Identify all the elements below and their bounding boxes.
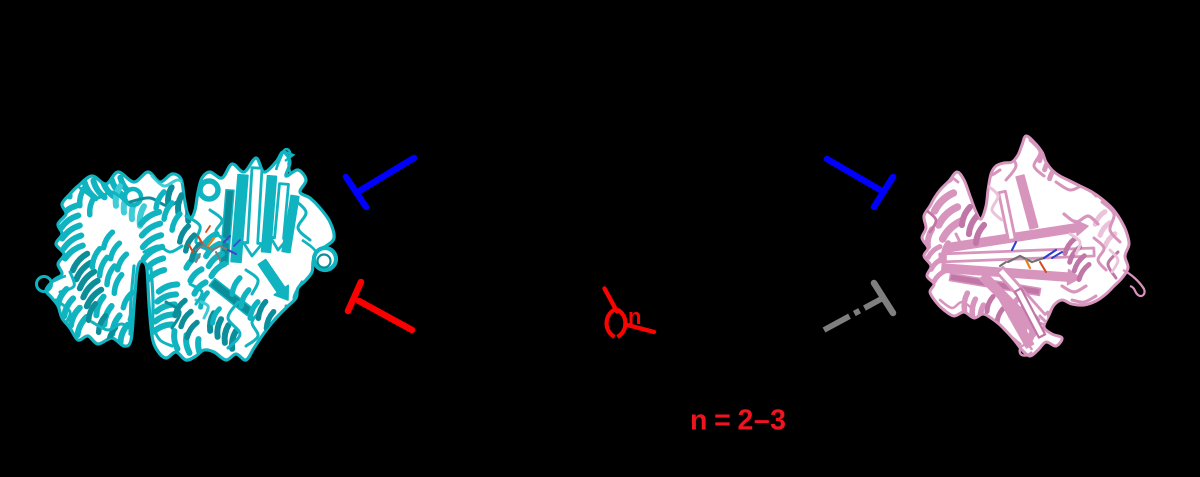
svg-text:n: n [628, 304, 641, 329]
svg-text:n = 2–3: n = 2–3 [690, 405, 787, 437]
